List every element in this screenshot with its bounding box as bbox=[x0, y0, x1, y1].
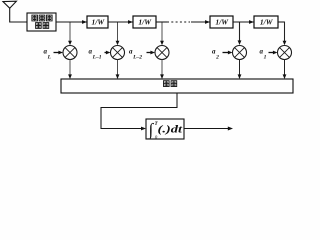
multiplier M2 bbox=[111, 46, 125, 60]
svg-text:1/W: 1/W bbox=[138, 18, 152, 27]
arrow a_L-2 bbox=[147, 52, 152, 54]
svg-text:L–2: L–2 bbox=[132, 54, 142, 60]
svg-text:1/W: 1/W bbox=[215, 18, 229, 27]
wire M5 to summer bbox=[284, 60, 286, 76]
wire M2 to summer bbox=[117, 60, 119, 76]
arrow a_2 bbox=[223, 52, 229, 54]
label 接收机 bbox=[32, 15, 52, 21]
multiplier M3 bbox=[155, 46, 169, 60]
svg-text:(.)dt: (.)dt bbox=[158, 124, 184, 135]
tap wire 2 bbox=[117, 23, 119, 42]
wire summer output bbox=[101, 93, 177, 129]
wire M3 to summer bbox=[161, 60, 163, 76]
svg-text:1: 1 bbox=[264, 54, 267, 60]
label 求和 bbox=[164, 81, 177, 87]
svg-text:1/W: 1/W bbox=[91, 18, 105, 27]
tap wire 1 bbox=[69, 23, 71, 42]
multiplier M5 bbox=[278, 46, 292, 60]
delay element D3 (1/W) bbox=[210, 16, 233, 28]
delay element D4 (1/W) bbox=[254, 16, 278, 28]
arrow a_L bbox=[54, 52, 60, 54]
delay element D1 (1/W) bbox=[87, 16, 108, 28]
wire antenna feed bbox=[10, 8, 27, 22]
multiplier M4 bbox=[233, 46, 247, 60]
arrow a_1 bbox=[269, 52, 274, 54]
coefficient label a_L-2 bbox=[129, 48, 142, 61]
coefficient label a_1 bbox=[260, 48, 267, 61]
wire D1 to D2 bbox=[108, 21, 133, 23]
wire M4 to summer bbox=[239, 60, 241, 76]
tap wire 4 bbox=[239, 23, 241, 42]
wire into D3 bbox=[191, 21, 210, 23]
svg-text:1/W: 1/W bbox=[260, 18, 274, 27]
arrow a_L-1 bbox=[105, 52, 108, 54]
wire M1 to summer bbox=[69, 60, 71, 76]
svg-text:2: 2 bbox=[215, 54, 219, 60]
receiver front-end box bbox=[27, 13, 56, 31]
coefficient label a_2 bbox=[212, 48, 219, 61]
svg-text:L–1: L–1 bbox=[92, 54, 102, 60]
tap wire 5 bbox=[284, 22, 286, 42]
svg-text:L: L bbox=[47, 54, 52, 60]
wire D3 to D4 bbox=[233, 21, 254, 23]
wire D4 to last tap corner bbox=[278, 21, 285, 23]
wire D2 to tap3 bbox=[156, 21, 167, 23]
integrator box bbox=[146, 119, 184, 139]
multiplier M1 bbox=[63, 46, 77, 60]
label 前端 bbox=[36, 23, 49, 29]
delay element D2 (1/W) bbox=[133, 16, 156, 28]
tap wire 3 bbox=[161, 23, 163, 42]
coefficient label a_L bbox=[44, 48, 52, 61]
svg-text:∫: ∫ bbox=[148, 120, 155, 140]
summer box bbox=[61, 79, 293, 93]
antenna bbox=[3, 1, 16, 8]
wire integrator output bbox=[184, 128, 229, 130]
wire dashed continuation bbox=[167, 21, 190, 23]
coefficient label a_L-1 bbox=[89, 48, 102, 61]
wire rail receiver to delay1 bbox=[56, 21, 87, 23]
integrator expression bbox=[148, 120, 184, 141]
